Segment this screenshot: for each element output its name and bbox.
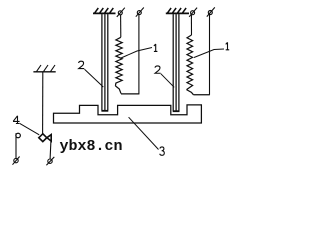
leader line for label 1 (left)	[121, 48, 152, 59]
label 4	[13, 116, 20, 124]
pin P1 (fixed pivot of left spring)	[117, 8, 125, 17]
pin P3 (fixed pivot of right spring)	[189, 8, 197, 17]
rod from pin P2 down to bar (left assembly)	[138, 15, 140, 94]
tube 2 (left assembly, three vertical lines with bottom cap)	[101, 14, 108, 111]
pin P2 (fixed pivot of left rod)	[136, 8, 144, 17]
svg-text:ybx8.cn: ybx8.cn	[60, 138, 123, 155]
label 2 (right)	[155, 66, 161, 73]
tube 2 (right assembly, three vertical lines with bottom cap)	[173, 14, 180, 111]
leader line for label 2 (left)	[85, 69, 104, 87]
pin P4 (fixed pivot of right rod)	[207, 7, 215, 16]
label 2 (left)	[79, 61, 85, 68]
wall support (small, above element 4)	[33, 65, 55, 72]
connecting bar (left assembly)	[121, 93, 139, 95]
leader line for label 2 (right)	[161, 74, 174, 88]
base 3 (stepped pedestal)	[54, 105, 202, 123]
plumb bob circle (right pendulum)	[46, 157, 54, 165]
element 4 (diamond + triangle link)	[39, 134, 51, 142]
spring 1 bottom elbow to bar	[115, 86, 121, 94]
plumb bob circle (left pendulum)	[13, 157, 20, 165]
spring 1 (right assembly zigzag)	[187, 35, 193, 90]
leader line for label 1 (right)	[194, 49, 224, 58]
hanger wire from P3 to spring top	[190, 15, 192, 35]
left pendulum with hook loop	[16, 133, 21, 158]
label 3	[160, 147, 165, 155]
label 1 (right)	[226, 42, 230, 49]
ceiling support (left assembly)	[93, 8, 116, 13]
leader line for label 3	[129, 117, 159, 149]
wire below element 4	[49, 141, 52, 159]
leader line for label 4	[19, 123, 39, 135]
rope from wall support to element 4	[42, 72, 44, 134]
rod from pin P4 down to bar (right assembly)	[209, 15, 211, 95]
ceiling support (right assembly)	[166, 8, 189, 13]
connecting bar (right assembly)	[193, 94, 209, 96]
spring bottom elbow to bar (right assembly)	[187, 90, 194, 95]
spring 1 (left assembly zigzag)	[115, 37, 122, 86]
hanger wire from P1 to spring top	[120, 15, 122, 38]
label 1 (left)	[154, 44, 158, 51]
